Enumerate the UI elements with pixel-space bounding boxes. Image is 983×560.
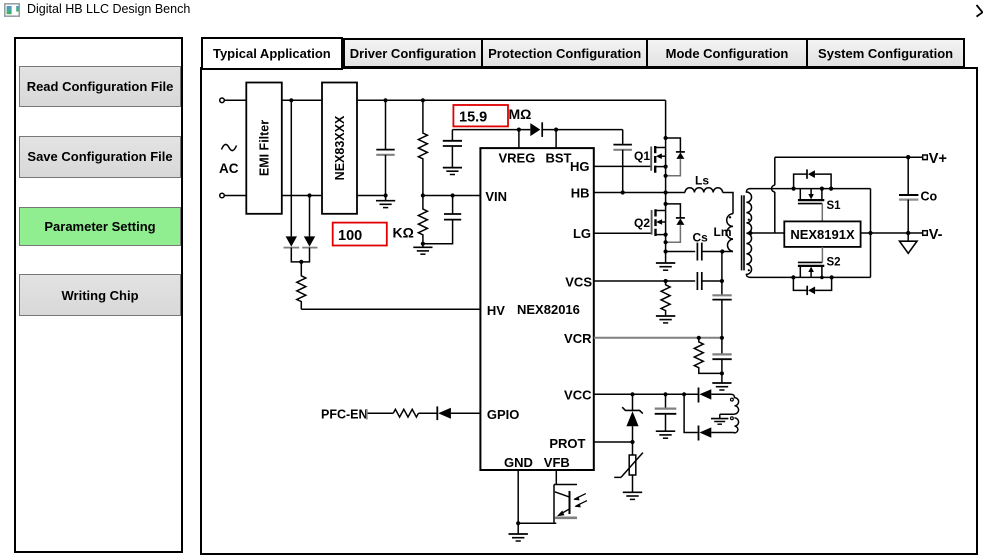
node HB bootstrap bbox=[621, 190, 625, 194]
svg-text:VIN: VIN bbox=[485, 189, 507, 204]
node VCC aux bbox=[682, 392, 686, 396]
node S2 diode return bbox=[830, 275, 834, 279]
svg-text:100: 100 bbox=[338, 228, 362, 244]
pin label VCS bbox=[565, 275, 592, 290]
node VIN row left bbox=[421, 193, 425, 197]
AC source terminal bottom bbox=[220, 193, 225, 198]
wire V+ rail bbox=[775, 156, 923, 158]
pin label VREG bbox=[499, 151, 536, 166]
wire Cs row bbox=[666, 251, 696, 253]
pin label VFB bbox=[544, 455, 570, 470]
pin label VIN bbox=[485, 189, 507, 204]
wire GPIO to IC bbox=[451, 412, 481, 414]
wire HV row bbox=[301, 308, 480, 310]
ground bus bbox=[376, 196, 395, 208]
svg-text:NEX83XXX: NEX83XXX bbox=[333, 115, 347, 180]
ground Q2 source bbox=[656, 263, 675, 270]
tab Typical Application (active) bbox=[201, 37, 343, 70]
value box 100 bbox=[333, 223, 387, 246]
window title text bbox=[27, 2, 190, 16]
wire divider vertical bbox=[721, 252, 723, 355]
svg-text:Q1: Q1 bbox=[634, 149, 650, 163]
capacitor VCS coupling bbox=[697, 272, 701, 290]
wire aux center tap bbox=[720, 414, 735, 418]
wire Cs to Lm bbox=[702, 251, 733, 253]
tab Protection Configuration bbox=[481, 38, 646, 68]
value box 15.9 bbox=[453, 105, 508, 126]
wire aux return bbox=[684, 394, 697, 432]
svg-text:V-: V- bbox=[929, 227, 943, 243]
pin label PROT bbox=[549, 436, 585, 451]
resistor divider lower bbox=[418, 196, 427, 244]
chevron top right bbox=[970, 3, 983, 19]
svg-text:VREG: VREG bbox=[499, 151, 536, 166]
ground GND pin bbox=[509, 534, 528, 541]
pin label VCC bbox=[564, 387, 592, 402]
diode Q1 body bbox=[666, 138, 685, 176]
IC U2 NEX8191X bbox=[784, 221, 860, 247]
diode D1 bbox=[284, 236, 300, 247]
svg-text:Ls: Ls bbox=[695, 174, 709, 188]
capacitor VCR upper bbox=[712, 354, 731, 383]
svg-text:HV: HV bbox=[487, 303, 505, 318]
pin label GPIO bbox=[487, 407, 520, 422]
svg-text:PFC-EN: PFC-EN bbox=[321, 408, 368, 422]
wire LG row bbox=[594, 232, 652, 234]
wire rectifier drop left bbox=[290, 100, 292, 236]
capacitor divider bbox=[423, 196, 461, 244]
wire BST pin drop bbox=[555, 130, 557, 149]
capacitor bootstrap bbox=[613, 130, 632, 193]
transformer secondary winding bbox=[746, 189, 751, 278]
resistor divider upper bbox=[418, 100, 427, 195]
svg-text:VCS: VCS bbox=[565, 275, 592, 290]
ground divider bbox=[413, 244, 432, 255]
wire VCR row bbox=[594, 337, 722, 339]
svg-text:GPIO: GPIO bbox=[487, 407, 520, 422]
controller IC U1 NEX82016 bbox=[480, 148, 593, 470]
pin label VCR bbox=[564, 331, 592, 346]
svg-text:PROT: PROT bbox=[549, 436, 585, 451]
wire rectifier drop right bbox=[309, 196, 311, 237]
node S1 diode return bbox=[829, 187, 833, 191]
wire secondary right rail bbox=[870, 189, 872, 278]
node S2 source stub bbox=[820, 276, 824, 280]
capacitor VREG bbox=[443, 130, 462, 168]
svg-text:V+: V+ bbox=[929, 151, 947, 167]
wire V+ riser with hop bbox=[772, 157, 775, 233]
wire GPIO mid bbox=[419, 412, 438, 414]
pin label GND bbox=[504, 455, 533, 470]
diode D2 bbox=[302, 236, 317, 247]
svg-text:S2: S2 bbox=[827, 257, 841, 269]
diode GPIO bbox=[437, 406, 451, 420]
capacitor VCS divider bbox=[712, 295, 731, 299]
diode S1 parallel bbox=[794, 169, 832, 188]
svg-text:MΩ: MΩ bbox=[509, 106, 532, 122]
wire VCC row bbox=[594, 393, 699, 395]
wire V- row bbox=[871, 232, 923, 234]
wire GND pin drop bbox=[517, 470, 519, 534]
svg-text:VCC: VCC bbox=[564, 387, 592, 402]
tab Driver Configuration bbox=[343, 38, 481, 68]
wire U2 to rail bbox=[861, 232, 871, 234]
svg-text:LG: LG bbox=[573, 226, 591, 241]
node PROT bbox=[630, 440, 634, 444]
unit label KOhm bbox=[393, 225, 414, 241]
node BST pin bbox=[554, 128, 558, 132]
svg-text:Cs: Cs bbox=[693, 231, 709, 245]
svg-text:Lm: Lm bbox=[714, 225, 732, 239]
inductor Ls bbox=[666, 174, 733, 214]
svg-text:NEX82016: NEX82016 bbox=[517, 302, 580, 317]
transistor Q2 bbox=[634, 209, 666, 236]
node on top wire bbox=[289, 98, 293, 102]
node Q2 drain bbox=[664, 202, 668, 206]
node rectifier out bbox=[299, 260, 303, 264]
transistor S1 bbox=[798, 189, 841, 222]
pin label LG bbox=[573, 226, 591, 241]
PFC block NEX83XXX bbox=[322, 83, 357, 214]
window title icon bbox=[4, 3, 21, 17]
svg-text:AC: AC bbox=[219, 161, 239, 176]
resistor VCS sense bbox=[661, 281, 670, 316]
wire S2 row bbox=[750, 276, 871, 278]
wire HB row bbox=[594, 192, 666, 194]
varistor RV1 bbox=[614, 442, 643, 492]
svg-text:KΩ: KΩ bbox=[393, 225, 414, 241]
button Save Configuration File bbox=[19, 136, 181, 178]
winding aux upper bbox=[731, 394, 739, 414]
node S1 drain bbox=[792, 187, 796, 191]
node resonant bottom bbox=[720, 249, 724, 253]
wire VIN row bbox=[423, 195, 481, 197]
node VCC zener bbox=[630, 392, 634, 396]
button Writing Chip bbox=[19, 274, 181, 316]
node S2 drain bbox=[791, 275, 795, 279]
terminal V+ bbox=[923, 151, 947, 167]
capacitor bus filter bbox=[376, 100, 394, 195]
ground VCC cap bbox=[656, 431, 675, 438]
diode bootstrap bbox=[530, 122, 542, 137]
node S1 source stub bbox=[820, 187, 824, 191]
terminal PFC-EN bbox=[321, 408, 368, 422]
svg-text:BST: BST bbox=[546, 151, 572, 166]
wire AC top to EMI bbox=[224, 99, 246, 101]
ground VREG cap bbox=[443, 168, 462, 175]
ground VCR network bbox=[712, 383, 731, 390]
node VCS resistor bbox=[664, 279, 668, 283]
tab Mode Configuration bbox=[646, 38, 805, 68]
AC sine symbol bbox=[222, 144, 237, 150]
capacitor Cs bbox=[693, 231, 709, 261]
wire VCS row bbox=[594, 280, 695, 282]
node Q2 source stub bbox=[664, 233, 668, 237]
schematic panel frame bbox=[200, 67, 979, 555]
node VIN row cap bbox=[451, 193, 455, 197]
svg-text:VCR: VCR bbox=[564, 331, 592, 346]
left tool panel bbox=[14, 37, 183, 553]
wire rectifier join bbox=[291, 248, 309, 262]
wire half-bridge vertical bbox=[665, 100, 667, 263]
svg-text:EMI Filter: EMI Filter bbox=[258, 120, 272, 176]
node Co top bbox=[906, 155, 910, 159]
node VCC cap bbox=[663, 392, 667, 396]
bottom rail to ground node bbox=[357, 195, 386, 197]
top DC rail bbox=[357, 99, 666, 101]
wire GND to opto bbox=[518, 522, 556, 524]
node VREG pin bbox=[517, 128, 521, 132]
wire EMI to NEX83XXX bottom bbox=[282, 195, 322, 197]
svg-text:VFB: VFB bbox=[544, 455, 570, 470]
wire S1 row bbox=[750, 188, 871, 190]
node VCR cap foot bbox=[720, 371, 724, 375]
ground aux tap bbox=[711, 419, 728, 425]
svg-text:S1: S1 bbox=[827, 200, 842, 212]
wire VREG pin drop bbox=[518, 130, 520, 149]
EMI Filter block bbox=[246, 83, 281, 214]
transformer core bbox=[742, 195, 744, 270]
node HB half-bridge bbox=[664, 190, 668, 194]
diode aux lower bbox=[699, 426, 732, 441]
svg-text:HB: HB bbox=[571, 185, 590, 200]
pin label HB bbox=[571, 185, 590, 200]
terminal V- bbox=[923, 227, 943, 243]
node Cs branch bbox=[664, 249, 668, 253]
resistor VCR bbox=[694, 338, 722, 374]
tab System Configuration bbox=[806, 38, 966, 68]
ground varistor bbox=[623, 492, 642, 499]
unit label MOhm bbox=[509, 106, 532, 122]
diode S2 parallel bbox=[793, 277, 831, 295]
button Read Configuration File bbox=[19, 66, 181, 107]
wire HG row bbox=[594, 165, 651, 167]
svg-text:HG: HG bbox=[570, 159, 590, 174]
svg-text:Co: Co bbox=[921, 190, 938, 204]
transistor Q1 bbox=[634, 146, 666, 173]
wire center tap to V+ bbox=[750, 232, 784, 234]
svg-text:NEX8191X: NEX8191X bbox=[790, 227, 855, 242]
AC source terminal top bbox=[220, 98, 225, 103]
button Parameter Setting bbox=[19, 207, 181, 246]
capacitor VCC filter bbox=[655, 394, 677, 431]
node VCR divider top bbox=[720, 336, 724, 340]
svg-text:GND: GND bbox=[504, 455, 533, 470]
ground VCS resistor bbox=[656, 316, 675, 323]
wire VFB pin drop bbox=[555, 470, 557, 485]
zener diode VCC clamp bbox=[622, 394, 643, 442]
capacitor Co bbox=[899, 157, 938, 233]
transistor S2 bbox=[798, 247, 841, 278]
svg-text:15.9: 15.9 bbox=[459, 110, 487, 126]
diode Q2 body bbox=[666, 204, 685, 242]
resistor HV startup bbox=[297, 262, 306, 309]
wire PROT row bbox=[594, 441, 633, 443]
pin label HG bbox=[570, 159, 590, 174]
resistor GPIO series bbox=[393, 409, 418, 417]
node Q2 diode return bbox=[664, 240, 668, 244]
node Co bottom bbox=[906, 231, 910, 235]
svg-text:Q2: Q2 bbox=[634, 216, 650, 230]
inductor Lm bbox=[714, 214, 734, 252]
IC name NEX82016 bbox=[517, 302, 580, 317]
diode aux upper bbox=[699, 388, 732, 403]
node Q1 diode return bbox=[664, 174, 668, 178]
node VCR resistor bbox=[697, 336, 701, 340]
wire GPIO left bbox=[368, 412, 394, 414]
node bottom rail bbox=[384, 193, 388, 197]
node GND bbox=[516, 521, 520, 525]
node divider foot bbox=[421, 242, 425, 246]
ground output bbox=[900, 233, 918, 253]
wire BST row bbox=[542, 129, 623, 131]
AC label bbox=[219, 161, 239, 176]
node on bottom wire bbox=[307, 193, 311, 197]
pin label BST bbox=[546, 151, 572, 166]
node rail V- bbox=[868, 231, 872, 235]
optocoupler U3 bbox=[554, 485, 587, 524]
wire AC bottom to EMI bbox=[224, 195, 246, 197]
node Q1 source stub bbox=[664, 165, 668, 169]
node secondary center tap bbox=[748, 231, 752, 235]
node VCS divider bbox=[720, 279, 724, 283]
wire VREG row bbox=[452, 129, 530, 131]
node top rail cap bbox=[383, 98, 387, 102]
wire VCS to divider bbox=[702, 280, 722, 282]
pin label HV bbox=[487, 303, 505, 318]
wire EMI to NEX83XXX top bbox=[282, 99, 322, 101]
node top rail divider bbox=[421, 98, 425, 102]
winding aux lower bbox=[731, 417, 739, 433]
node Q1 drain bbox=[664, 136, 668, 140]
